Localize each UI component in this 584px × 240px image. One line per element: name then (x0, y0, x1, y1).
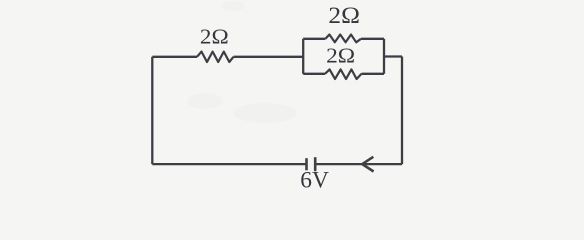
resistor R3 (2 ohm, bottom parallel branch) (325, 69, 362, 79)
wire: bottom left segment (left corner to battery) (152, 163, 306, 165)
battery B1 positive plate (305, 158, 308, 170)
wire: bottom right segment (battery to right corner) (316, 163, 403, 165)
node: parallel block left junction (left edge) (302, 39, 304, 74)
svg-text:2Ω: 2Ω (200, 24, 229, 48)
resistor R1 (2 ohm, series, top wire) (197, 52, 234, 62)
svg-text:6V: 6V (300, 168, 329, 194)
current direction arrow (pointing left on bottom wire) (362, 157, 373, 172)
svg-text:2Ω: 2Ω (328, 3, 360, 29)
svg-text:2Ω: 2Ω (326, 44, 355, 68)
resistor R2 (2 ohm, top parallel branch) (325, 35, 361, 43)
wire: right vertical side (401, 57, 403, 165)
wire: bottom branch left lead (303, 73, 325, 75)
wire: top-left horizontal segment (152, 56, 197, 58)
wire: top branch left lead (303, 38, 325, 40)
wire: bottom branch right lead (362, 73, 385, 75)
wire: top horizontal segment into parallel block (234, 56, 304, 58)
wire: left vertical side (151, 57, 153, 164)
node: parallel block right junction (right edge) (383, 39, 385, 74)
wire: top branch right lead (361, 38, 384, 40)
wire: exit from parallel block to right side (384, 55, 402, 57)
faint page bleed-through smudges (187, 1, 297, 123)
battery B1 negative plate (314, 157, 317, 171)
